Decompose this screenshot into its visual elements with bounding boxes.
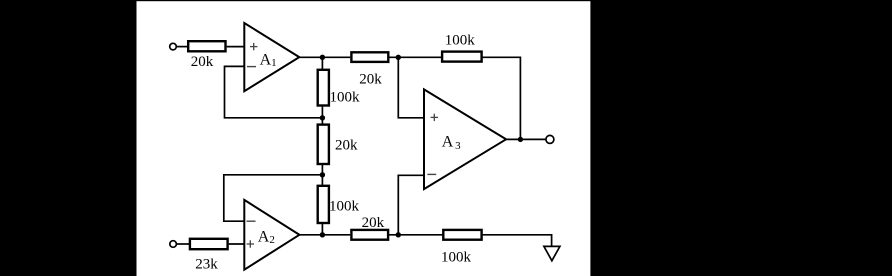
wire A2 output to node	[299, 234, 350, 236]
wire 20k to node	[388, 56, 442, 58]
svg-text:20k: 20k	[362, 215, 385, 231]
svg-text:100k: 100k	[329, 199, 360, 215]
wire 100k to feedback corner and down to output node	[482, 57, 521, 139]
node A3 plus net	[396, 55, 401, 60]
wire R to A1 + input	[227, 46, 245, 48]
node A3 minus net	[396, 232, 401, 237]
output terminal	[546, 135, 554, 143]
node chain junction 1	[320, 115, 325, 120]
wire to node	[321, 164, 323, 186]
white schematic canvas	[137, 1, 591, 276]
svg-text:20k: 20k	[335, 138, 358, 154]
resistor 20k (top middle)	[351, 52, 388, 62]
wire A1 feedback (inverting input loop)	[225, 66, 323, 117]
op-amp A1	[244, 23, 299, 91]
resistor 100k (vertical bottom)	[318, 186, 329, 223]
node A2 output	[320, 232, 325, 237]
op-amp A2	[244, 200, 299, 270]
resistor 23k (bottom input)	[190, 239, 228, 249]
wire R to A2 + input	[229, 243, 245, 245]
svg-text:20k: 20k	[359, 71, 382, 87]
wire A2 feedback (inverting input loop)	[224, 175, 323, 221]
wire terminal to R 20k	[176, 46, 188, 48]
ground symbol	[544, 246, 560, 260]
svg-text:20k: 20k	[191, 54, 214, 70]
wire node up to A3 - input	[398, 175, 424, 235]
wire to node	[321, 106, 323, 125]
op-amp A3	[424, 89, 506, 189]
resistor 100k (bottom, to ground)	[443, 230, 481, 240]
svg-text:100k: 100k	[330, 89, 361, 105]
svg-text:23k: 23k	[195, 256, 218, 272]
wire 100k to ground	[483, 235, 552, 247]
node chain junction 2	[320, 172, 325, 177]
svg-text:100k: 100k	[445, 32, 476, 48]
svg-text:100k: 100k	[441, 250, 472, 266]
input terminal (bottom)	[170, 241, 177, 248]
wire to A2 output node	[321, 223, 323, 235]
resistor 20k (bottom middle)	[351, 230, 388, 240]
wire node down to A3 + input	[398, 57, 424, 118]
wire A1 output node down to R chain	[321, 57, 323, 69]
wire terminal to R 23k	[177, 243, 191, 245]
resistor 100k (vertical top)	[318, 70, 329, 106]
node A3 output	[518, 137, 523, 142]
wire 20k to node	[388, 234, 443, 236]
resistor 20k (top input)	[188, 41, 225, 51]
resistor 20k (vertical middle)	[318, 125, 329, 164]
input terminal (top)	[170, 43, 177, 50]
wire A3 output to terminal	[506, 138, 546, 140]
resistor 100k (top feedback)	[442, 52, 482, 62]
node A1 output	[320, 55, 325, 60]
wire A1 output to node	[299, 56, 350, 58]
